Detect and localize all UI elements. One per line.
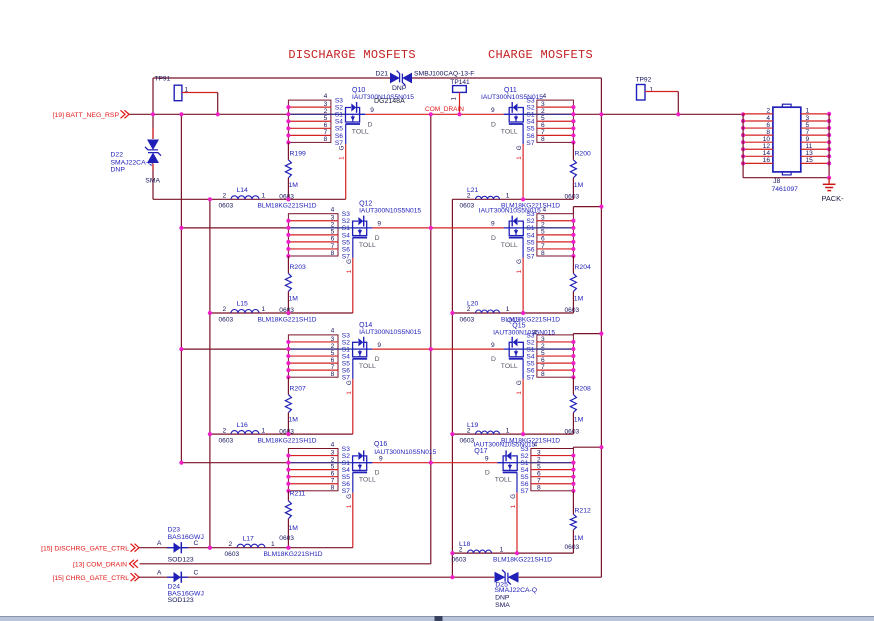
transistor Q16 MOSFET symbol xyxy=(346,441,437,508)
svg-text:2: 2 xyxy=(331,343,335,350)
svg-text:S2: S2 xyxy=(526,218,534,225)
svg-text:4: 4 xyxy=(543,93,547,100)
junction dots main nets xyxy=(151,112,745,465)
svg-text:S6: S6 xyxy=(526,368,534,375)
resistor R211 1M xyxy=(279,491,305,548)
wire bus B3 discharge gate bus (x=209.9) xyxy=(209,199,211,547)
wire gate line row4 charge xyxy=(452,552,573,554)
svg-text:5: 5 xyxy=(541,229,545,236)
svg-text:IAUT300N10S5N015: IAUT300N10S5N015 xyxy=(481,94,543,101)
svg-text:0603: 0603 xyxy=(460,203,475,210)
transistor Q15 package box xyxy=(523,332,575,381)
wire gate line row2 charge xyxy=(452,312,573,314)
svg-text:1: 1 xyxy=(506,427,510,434)
transistor Q12 package box xyxy=(286,207,352,261)
svg-text:TP91: TP91 xyxy=(155,76,171,83)
svg-text:S6: S6 xyxy=(520,481,528,488)
resistor R199 1M xyxy=(279,142,306,200)
svg-text:S1: S1 xyxy=(526,225,534,232)
svg-text:S2: S2 xyxy=(526,339,534,346)
svg-text:8: 8 xyxy=(766,129,770,136)
svg-text:S2: S2 xyxy=(335,105,343,112)
node COM_DRAIN bottom off-page xyxy=(73,560,138,569)
svg-text:6: 6 xyxy=(541,122,545,129)
svg-text:G: G xyxy=(346,494,353,499)
svg-text:D: D xyxy=(375,235,380,242)
wire top net D21 to bus B6 xyxy=(412,77,601,79)
wire drain Q12 row xyxy=(372,227,430,229)
svg-text:1M: 1M xyxy=(574,295,584,302)
wire drain Q16 row xyxy=(372,462,430,464)
wire drain Q15 row xyxy=(431,348,504,350)
svg-text:8: 8 xyxy=(331,371,335,378)
svg-text:L17: L17 xyxy=(243,535,255,542)
wire charge source jog row3 xyxy=(572,334,574,335)
svg-text:8: 8 xyxy=(324,136,328,143)
svg-text:S1: S1 xyxy=(526,112,534,119)
svg-text:R199: R199 xyxy=(290,151,306,158)
svg-text:9: 9 xyxy=(491,342,495,349)
svg-text:9: 9 xyxy=(370,107,374,114)
svg-text:Q11: Q11 xyxy=(504,87,517,94)
svg-text:S3: S3 xyxy=(335,98,343,105)
svg-text:2: 2 xyxy=(467,193,471,200)
svg-text:7: 7 xyxy=(541,129,545,136)
wire charge source jog row2 xyxy=(572,207,574,214)
svg-text:TOLL: TOLL xyxy=(359,242,376,249)
wire gate Q13 vertical xyxy=(522,258,524,313)
wire source row4 discharge to bus B2 xyxy=(181,462,288,464)
svg-text:1: 1 xyxy=(516,156,523,160)
svg-text:DNP: DNP xyxy=(111,167,126,174)
svg-text:1M: 1M xyxy=(574,535,584,542)
svg-text:7: 7 xyxy=(541,243,545,250)
svg-text:[13] COM_DRAIN: [13] COM_DRAIN xyxy=(73,561,127,568)
svg-text:S4: S4 xyxy=(520,467,528,474)
diode D22 SMAJ22CA-Q xyxy=(111,128,162,185)
svg-text:2: 2 xyxy=(223,427,227,434)
svg-text:DISCHARGE MOSFETS: DISCHARGE MOSFETS xyxy=(288,48,416,62)
svg-text:J8: J8 xyxy=(773,178,780,185)
svg-text:7: 7 xyxy=(806,129,810,136)
svg-text:R204: R204 xyxy=(575,264,591,271)
svg-text:G: G xyxy=(346,259,353,264)
svg-text:2: 2 xyxy=(331,222,335,229)
svg-text:1M: 1M xyxy=(574,182,584,189)
svg-text:D: D xyxy=(491,356,496,363)
svg-text:S5: S5 xyxy=(520,474,528,481)
svg-text:8: 8 xyxy=(541,371,545,378)
node BATT_NEG_RSP off-page connector xyxy=(53,110,129,119)
svg-text:5: 5 xyxy=(806,122,810,129)
svg-text:16: 16 xyxy=(763,157,771,164)
svg-text:L15: L15 xyxy=(237,301,249,308)
svg-text:4: 4 xyxy=(543,207,547,214)
transistor Q13 MOSFET symbol xyxy=(479,208,541,274)
svg-text:15: 15 xyxy=(806,157,814,164)
svg-text:0603: 0603 xyxy=(279,535,294,542)
svg-text:4: 4 xyxy=(324,93,328,100)
wire gate Q11 vertical xyxy=(522,144,524,199)
svg-text:COM_DRAIN: COM_DRAIN xyxy=(425,106,464,113)
svg-text:2: 2 xyxy=(223,306,227,313)
resistor R203 1M xyxy=(279,256,306,314)
svg-text:S6: S6 xyxy=(335,133,343,140)
wire charge row1 source to J8 xyxy=(523,113,743,115)
svg-text:3: 3 xyxy=(331,215,335,222)
svg-text:0603: 0603 xyxy=(225,551,240,558)
svg-text:S4: S4 xyxy=(342,467,350,474)
svg-text:3: 3 xyxy=(541,101,545,108)
svg-text:SMA: SMA xyxy=(495,602,510,609)
svg-text:8: 8 xyxy=(331,250,335,257)
svg-text:S1: S1 xyxy=(342,346,350,353)
svg-text:1: 1 xyxy=(650,87,654,94)
svg-text:1M: 1M xyxy=(289,182,299,189)
svg-text:SOD123: SOD123 xyxy=(168,557,194,564)
svg-text:BLM18KG221SH1D: BLM18KG221SH1D xyxy=(264,551,323,558)
svg-text:R200: R200 xyxy=(575,151,591,158)
svg-text:R208: R208 xyxy=(575,385,591,392)
svg-text:5: 5 xyxy=(541,115,545,122)
svg-text:BLM18KG221SH1D: BLM18KG221SH1D xyxy=(258,203,317,210)
svg-text:[19] BATT_NEG_RSP: [19] BATT_NEG_RSP xyxy=(53,112,120,119)
svg-text:S1: S1 xyxy=(335,112,343,119)
svg-text:3: 3 xyxy=(541,336,545,343)
svg-text:S4: S4 xyxy=(526,119,534,126)
bottom bar xyxy=(0,616,874,621)
svg-text:D: D xyxy=(485,470,490,477)
transistor Q11 MOSFET symbol xyxy=(481,87,543,160)
wire gate Q14 vertical xyxy=(352,379,354,434)
svg-text:9: 9 xyxy=(379,455,383,462)
svg-text:G: G xyxy=(510,494,517,499)
svg-text:BLM18KG221SH1D: BLM18KG221SH1D xyxy=(493,556,552,563)
svg-text:S5: S5 xyxy=(526,361,534,368)
svg-text:S7: S7 xyxy=(526,140,534,147)
svg-text:1: 1 xyxy=(262,427,266,434)
svg-text:CHARGE MOSFETS: CHARGE MOSFETS xyxy=(488,48,593,62)
svg-text:1: 1 xyxy=(451,97,458,101)
svg-text:[15] DISCHRG_GATE_CTRL: [15] DISCHRG_GATE_CTRL xyxy=(41,545,129,552)
svg-text:G: G xyxy=(516,259,523,264)
diode D21 SMBJ100CAQ-13-F xyxy=(376,71,475,93)
svg-text:4: 4 xyxy=(534,442,538,449)
svg-text:14: 14 xyxy=(763,150,771,157)
svg-text:R203: R203 xyxy=(290,264,306,271)
svg-text:A: A xyxy=(157,540,162,547)
svg-text:S7: S7 xyxy=(526,375,534,382)
svg-text:1: 1 xyxy=(346,504,353,508)
svg-text:IAUT300N10S5N015: IAUT300N10S5N015 xyxy=(493,330,555,337)
svg-text:IAUT300N10S5N015: IAUT300N10S5N015 xyxy=(479,208,541,215)
svg-text:D: D xyxy=(491,121,496,128)
svg-text:S5: S5 xyxy=(526,239,534,246)
test point TP91 xyxy=(155,76,218,115)
svg-text:1: 1 xyxy=(516,391,523,395)
svg-text:S6: S6 xyxy=(526,133,534,140)
svg-text:0603: 0603 xyxy=(460,437,475,444)
wire gate Q16 vertical xyxy=(352,493,354,548)
svg-text:1: 1 xyxy=(346,391,353,395)
svg-text:S5: S5 xyxy=(342,361,350,368)
svg-text:SMAJ22CA-Q: SMAJ22CA-Q xyxy=(494,587,537,594)
inductor L19 BLM18KG221SH1D xyxy=(460,422,561,445)
svg-text:1M: 1M xyxy=(289,525,299,532)
wire COM_DRAIN bottom return xyxy=(140,563,431,565)
wire gate line row2 discharge xyxy=(210,312,353,314)
svg-text:9: 9 xyxy=(806,136,810,143)
svg-text:9: 9 xyxy=(491,107,495,114)
svg-text:1: 1 xyxy=(806,108,810,115)
svg-text:S6: S6 xyxy=(342,368,350,375)
svg-text:9: 9 xyxy=(377,221,381,228)
svg-text:2: 2 xyxy=(223,193,227,200)
svg-text:SOD123: SOD123 xyxy=(168,597,194,604)
transistor Q10 package box xyxy=(286,93,345,147)
svg-text:S1: S1 xyxy=(342,225,350,232)
svg-text:S3: S3 xyxy=(342,332,350,339)
svg-text:0603: 0603 xyxy=(219,437,234,444)
svg-text:7: 7 xyxy=(331,243,335,250)
svg-text:6: 6 xyxy=(541,236,545,243)
svg-text:2: 2 xyxy=(541,343,545,350)
svg-text:3: 3 xyxy=(537,449,541,456)
svg-text:TP92: TP92 xyxy=(636,77,652,84)
transistor Q14 MOSFET symbol xyxy=(346,322,422,395)
svg-text:D21: D21 xyxy=(376,71,389,78)
svg-text:5: 5 xyxy=(331,350,335,357)
svg-text:S4: S4 xyxy=(526,353,534,360)
transistor Q17 package box xyxy=(517,446,575,495)
inductor L20 BLM18KG221SH1D xyxy=(460,301,561,324)
svg-text:6: 6 xyxy=(541,357,545,364)
svg-text:TOLL: TOLL xyxy=(352,128,369,135)
resistor R208 1M xyxy=(565,377,591,435)
diode D25 SMAJ22CA-Q xyxy=(494,570,537,609)
inductor L14 BLM18KG221SH1D xyxy=(219,187,317,210)
svg-text:Q12: Q12 xyxy=(359,201,372,208)
svg-text:7: 7 xyxy=(324,129,328,136)
svg-text:1M: 1M xyxy=(289,417,299,424)
svg-text:2: 2 xyxy=(537,456,541,463)
svg-text:L16: L16 xyxy=(237,422,249,429)
svg-text:DG2148A: DG2148A xyxy=(374,98,405,105)
svg-text:4: 4 xyxy=(331,441,335,448)
test point TP141 xyxy=(450,79,470,114)
svg-text:Q10: Q10 xyxy=(352,87,365,94)
wire drain Q13 row xyxy=(431,227,504,229)
svg-text:TOLL: TOLL xyxy=(359,363,376,370)
wire drain Q17 row xyxy=(431,462,498,464)
svg-text:2: 2 xyxy=(459,546,463,553)
resistor R207 1M xyxy=(279,377,306,435)
svg-text:SMAJ22CA-Q: SMAJ22CA-Q xyxy=(111,160,154,167)
svg-text:4: 4 xyxy=(331,328,335,335)
svg-text:S2: S2 xyxy=(520,453,528,460)
svg-text:[15] CHRG_GATE_CTRL: [15] CHRG_GATE_CTRL xyxy=(52,575,129,582)
svg-text:TOLL: TOLL xyxy=(495,477,512,484)
wire gate line row3 charge xyxy=(452,433,573,435)
wire gate line row1 discharge xyxy=(153,198,346,200)
svg-text:0603: 0603 xyxy=(565,544,580,551)
svg-text:L14: L14 xyxy=(237,187,249,194)
svg-text:Q17: Q17 xyxy=(474,448,487,455)
svg-text:S2: S2 xyxy=(342,339,350,346)
ground PACK- xyxy=(822,176,845,203)
svg-text:7461097: 7461097 xyxy=(772,186,799,193)
diode D24 BAS16GWJ xyxy=(157,570,204,605)
svg-text:2: 2 xyxy=(229,541,233,548)
wire source row2 discharge to bus B2 xyxy=(181,227,288,229)
node CHRG_GATE_CTRL off-page xyxy=(52,573,139,582)
transistor Q10 MOSFET symbol xyxy=(339,87,415,160)
svg-text:D: D xyxy=(491,235,496,242)
svg-text:1: 1 xyxy=(516,269,523,273)
wire gate Q17 vertical xyxy=(516,493,518,553)
svg-text:R211: R211 xyxy=(290,491,306,498)
svg-text:G: G xyxy=(516,380,523,385)
svg-text:2: 2 xyxy=(467,306,471,313)
svg-text:0603: 0603 xyxy=(452,556,467,563)
node DISCHRG_GATE_CTRL off-page xyxy=(41,544,139,553)
svg-text:1: 1 xyxy=(506,193,510,200)
svg-text:1: 1 xyxy=(510,504,517,508)
svg-text:5: 5 xyxy=(537,463,541,470)
svg-text:2: 2 xyxy=(541,222,545,229)
svg-text:S5: S5 xyxy=(526,126,534,133)
svg-text:5: 5 xyxy=(324,115,328,122)
svg-text:5: 5 xyxy=(331,229,335,236)
wire gate Q10 vertical xyxy=(345,144,347,199)
svg-text:DNP: DNP xyxy=(392,85,407,92)
svg-text:8: 8 xyxy=(541,250,545,257)
wire bus B5 charge gate bus (x=452.4) xyxy=(451,199,453,577)
svg-text:D: D xyxy=(368,121,373,128)
svg-text:C: C xyxy=(194,570,199,577)
svg-text:BLM18KG221SH1D: BLM18KG221SH1D xyxy=(258,316,317,323)
svg-text:0603: 0603 xyxy=(460,316,475,323)
svg-text:S5: S5 xyxy=(342,474,350,481)
svg-text:IAUT300N10S5N015: IAUT300N10S5N015 xyxy=(374,449,436,456)
svg-text:13: 13 xyxy=(806,150,814,157)
svg-text:S5: S5 xyxy=(342,239,350,246)
svg-text:6: 6 xyxy=(766,122,770,129)
svg-text:S1: S1 xyxy=(342,460,350,467)
svg-text:6: 6 xyxy=(331,357,335,364)
wire source row3 discharge to bus B2 xyxy=(181,348,288,350)
wire drain Q14 row xyxy=(372,348,430,350)
svg-text:2: 2 xyxy=(467,427,471,434)
svg-text:S4: S4 xyxy=(526,232,534,239)
svg-text:PACK-: PACK- xyxy=(822,194,845,203)
svg-text:DNP: DNP xyxy=(495,595,510,602)
svg-text:TOLL: TOLL xyxy=(359,477,376,484)
svg-text:1: 1 xyxy=(346,269,353,273)
svg-text:5: 5 xyxy=(541,350,545,357)
svg-text:8: 8 xyxy=(537,485,541,492)
wire charge source jog row4 xyxy=(572,447,574,448)
svg-text:A: A xyxy=(157,570,162,577)
svg-text:IAUT300N10S5N015: IAUT300N10S5N015 xyxy=(359,208,421,215)
svg-text:S2: S2 xyxy=(342,218,350,225)
svg-text:S6: S6 xyxy=(342,481,350,488)
resistor R212 1M xyxy=(565,491,591,553)
test point TP92 xyxy=(636,77,679,115)
svg-text:BAS16GWJ: BAS16GWJ xyxy=(168,534,204,541)
svg-text:9: 9 xyxy=(377,342,381,349)
svg-text:3: 3 xyxy=(541,215,545,222)
svg-text:C: C xyxy=(194,540,199,547)
svg-text:2: 2 xyxy=(541,108,545,115)
svg-text:9: 9 xyxy=(491,221,495,228)
diode D23 BAS16GWJ xyxy=(157,527,204,564)
svg-text:S3: S3 xyxy=(342,211,350,218)
svg-text:6: 6 xyxy=(324,122,328,129)
svg-text:3: 3 xyxy=(331,449,335,456)
svg-text:BLM18KG221SH1D: BLM18KG221SH1D xyxy=(258,437,317,444)
svg-text:3: 3 xyxy=(331,336,335,343)
wire bus B4 COM_DRAIN vertical (x=430.8) xyxy=(430,114,432,564)
svg-text:S6: S6 xyxy=(526,246,534,253)
svg-text:7: 7 xyxy=(537,478,541,485)
inductor L18 BLM18KG221SH1D xyxy=(452,541,553,564)
svg-text:Q14: Q14 xyxy=(359,322,372,329)
inductor L15 BLM18KG221SH1D xyxy=(219,301,317,324)
resistor R204 1M xyxy=(565,256,591,314)
svg-text:2: 2 xyxy=(324,108,328,115)
svg-text:1: 1 xyxy=(500,546,504,553)
svg-text:3: 3 xyxy=(324,101,328,108)
inductor L17 BLM18KG221SH1D xyxy=(225,535,323,558)
svg-text:S3: S3 xyxy=(342,446,350,453)
resistor R200 1M xyxy=(565,142,591,200)
svg-text:S4: S4 xyxy=(342,232,350,239)
transistor Q11 package box xyxy=(523,93,575,147)
svg-text:0603: 0603 xyxy=(219,316,234,323)
svg-text:1: 1 xyxy=(262,193,266,200)
svg-text:7: 7 xyxy=(541,364,545,371)
transistor Q15 MOSFET symbol xyxy=(491,322,555,394)
svg-text:11: 11 xyxy=(806,143,813,150)
transistor Q16 package box xyxy=(286,441,352,495)
svg-text:2: 2 xyxy=(766,108,770,115)
svg-text:R212: R212 xyxy=(575,508,591,515)
wire COM_DRAIN horizontal row1 xyxy=(365,113,431,115)
svg-text:S7: S7 xyxy=(520,488,528,495)
svg-text:5: 5 xyxy=(331,463,335,470)
wire bus B2 (x=181.4) xyxy=(180,114,182,462)
wire gate line row3 discharge xyxy=(210,433,353,435)
wire bus B6 charge source bus (x=601.4) xyxy=(600,78,602,577)
svg-text:7: 7 xyxy=(331,478,335,485)
svg-text:6: 6 xyxy=(537,471,541,478)
svg-text:G: G xyxy=(516,145,523,150)
svg-text:IAUT300N10S5N015: IAUT300N10S5N015 xyxy=(359,329,421,336)
svg-text:1M: 1M xyxy=(574,417,584,424)
svg-text:D23: D23 xyxy=(168,527,181,534)
svg-text:1: 1 xyxy=(339,156,346,160)
transistor Q13 package box xyxy=(523,207,575,261)
svg-text:Q16: Q16 xyxy=(374,441,387,448)
svg-text:D22: D22 xyxy=(111,151,124,158)
wire gate Q12 vertical xyxy=(352,258,354,313)
wire gate Q15 vertical xyxy=(522,379,524,434)
wire top net BATT_NEG to D21 xyxy=(153,77,390,79)
wire gate line row1 charge xyxy=(452,198,573,200)
svg-text:7: 7 xyxy=(331,364,335,371)
svg-text:1M: 1M xyxy=(289,295,299,302)
